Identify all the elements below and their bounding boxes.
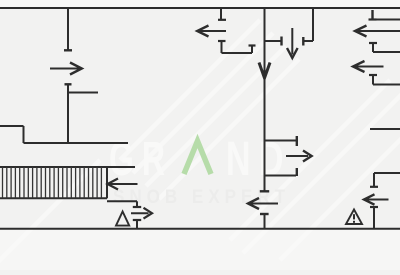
svg-text:GR: GR xyxy=(109,133,173,186)
